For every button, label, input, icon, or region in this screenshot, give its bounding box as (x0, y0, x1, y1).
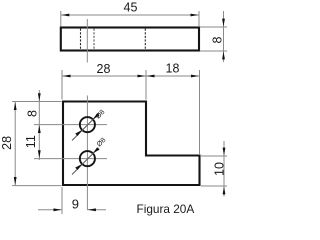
dimension line 10 (223, 141, 225, 197)
arrow 10 bottom (223, 186, 226, 194)
dimension line 9 right tail (87, 209, 106, 211)
leader arrow hole 2 upper (93, 147, 100, 153)
dimension line 28 (left) (14, 102, 16, 186)
arrow shared at hole1 centerline (38, 125, 41, 133)
arrow 28 left (63, 75, 71, 78)
arrow 28 bottom (left) (14, 177, 17, 185)
dimension line 8 (top view) (223, 11, 225, 62)
centerline hole (top view) (86, 19, 88, 63)
extension line left top (y=101.5) (12, 101, 62, 103)
leader arrow hole 2 lower (75, 164, 82, 170)
extension line 28/18 left (61, 70, 63, 100)
arrow 10 top (223, 148, 226, 156)
hidden line hole right edge (top view) (93, 29, 95, 50)
extension line 8 bottom (top view) (200, 50, 227, 52)
arrow 8 bottom (222, 51, 225, 59)
arrow 9 right (88, 208, 96, 211)
arrow 11 bottom (38, 150, 41, 158)
arrow 18 right (191, 75, 199, 78)
svg-text:11: 11 (24, 135, 38, 148)
centerline vertical holes (front view) (86, 96, 88, 211)
arrow 28 right (138, 75, 146, 78)
arrow 8 top (222, 19, 225, 27)
arrow 18 left (147, 75, 155, 78)
arrow 8 top (left dim) (38, 93, 41, 101)
svg-text:Figura 20A: Figura 20A (137, 202, 195, 216)
hidden line hole left edge (top view) (80, 29, 82, 50)
svg-text:28: 28 (97, 62, 111, 76)
svg-text:18: 18 (166, 62, 180, 76)
arrow 45 right (191, 14, 199, 17)
extension line left bottom (y=185) (12, 185, 62, 187)
hole circle 1 (80, 117, 95, 132)
extension line 10 top (201, 155, 227, 157)
extension line 8 top (top view) (200, 26, 227, 28)
hidden line step edge (top view) (144, 29, 146, 50)
leader arrow hole 1 upper (93, 113, 100, 119)
arrow 9 left (54, 208, 62, 211)
extension line 10 bottom (201, 185, 227, 187)
extension line 28/18 middle (145, 70, 147, 100)
svg-text:45: 45 (124, 1, 138, 15)
arrow 28 top (left) (14, 102, 17, 110)
svg-text:8: 8 (211, 36, 225, 43)
arrow 45 left (61, 14, 69, 17)
svg-text:28: 28 (0, 136, 14, 150)
centerline hole 1 horizontal (34, 124, 107, 126)
dimension line 8/11 (left) (38, 90, 40, 160)
dimension line 9 left tail (38, 209, 62, 211)
leader line hole 2 (72, 148, 99, 175)
leader line hole 1 (72, 114, 99, 141)
svg-text:10: 10 (213, 162, 227, 176)
svg-text:9: 9 (72, 197, 79, 212)
extension line 18 right (199, 70, 201, 154)
extension line 9 left (61, 187, 63, 214)
front view outline (63, 102, 200, 186)
centerline hole 2 horizontal (34, 158, 107, 160)
dimension line 28/18 (62, 75, 200, 77)
extension line 45 left (60, 11, 62, 26)
dimension line 45 (61, 14, 199, 16)
extension line 45 right (198, 11, 200, 26)
hole circle 2 (80, 151, 95, 166)
leader arrow hole 1 lower (75, 130, 82, 136)
svg-text:8: 8 (25, 110, 39, 117)
top view outline (61, 28, 199, 51)
